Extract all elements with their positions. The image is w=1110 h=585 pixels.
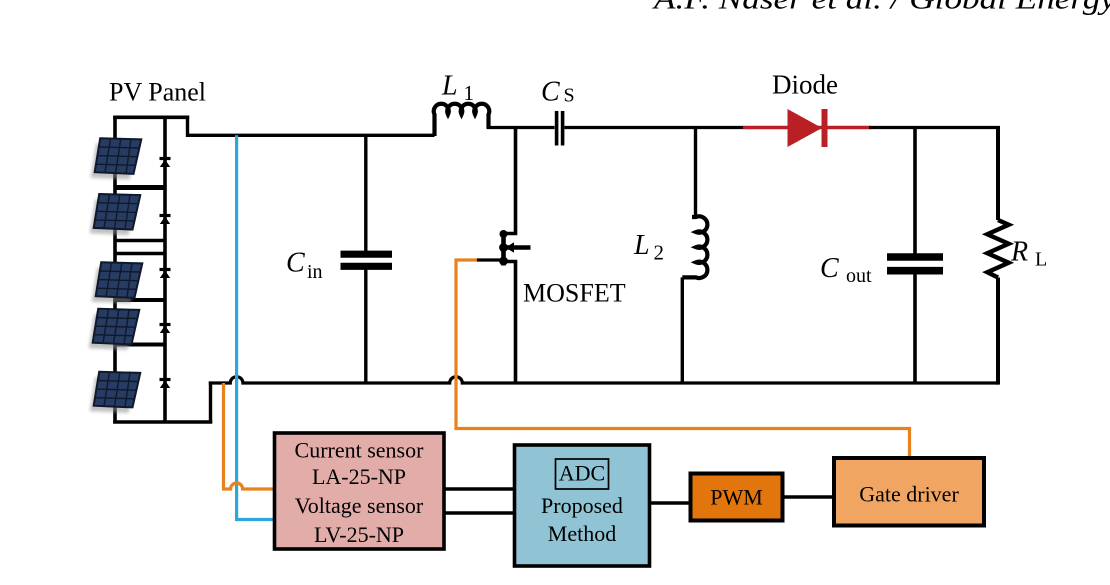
bypass diode D3 bbox=[160, 270, 171, 279]
svg-text:LA-25-NP: LA-25-NP bbox=[312, 464, 406, 489]
capacitor Cout top lead bbox=[913, 126, 917, 255]
resistor RL zigzag bbox=[987, 220, 1008, 278]
svg-text:Current sensor: Current sensor bbox=[295, 438, 425, 463]
svg-text:Voltage sensor: Voltage sensor bbox=[295, 493, 424, 518]
resistor RL bottom lead bbox=[996, 278, 1000, 385]
svg-text:C: C bbox=[286, 248, 305, 279]
PV module 4 bbox=[89, 309, 140, 350]
MOSFET Q gate lead with arrow bbox=[506, 245, 531, 249]
svg-text:Proposed: Proposed bbox=[541, 493, 623, 518]
svg-text:Method: Method bbox=[548, 521, 616, 546]
bypass diode D4 bbox=[160, 325, 171, 334]
svg-text:PV Panel: PV Panel bbox=[109, 78, 206, 107]
diode D (red) wire bbox=[743, 126, 871, 129]
capacitor Cin top lead bbox=[364, 135, 367, 251]
wire top rail left of Cs bbox=[487, 126, 555, 129]
inductor L2 top lead bbox=[694, 128, 697, 218]
PV string interconnect bar 5 bbox=[115, 343, 165, 347]
MOSFET Q channel bar bbox=[501, 231, 506, 266]
PV string interconnect bar 2 bbox=[115, 239, 165, 242]
wire bottom rail with hops bbox=[209, 377, 998, 383]
inductor L2 bottom lead bbox=[681, 277, 684, 383]
svg-text:PWM: PWM bbox=[710, 485, 763, 510]
wire top rail right of diode bbox=[869, 126, 1000, 129]
block ADC / proposed method bbox=[515, 445, 650, 566]
wire ADC to PWM bbox=[650, 501, 692, 504]
svg-text:in: in bbox=[307, 261, 323, 283]
svg-text:L: L bbox=[1035, 249, 1047, 271]
bypass diode D2 bbox=[160, 216, 171, 225]
PV string interconnect bar 3 bbox=[115, 252, 165, 255]
block PWM bbox=[691, 474, 783, 521]
wire orange current sense bbox=[224, 383, 277, 489]
PV module 3 bbox=[92, 262, 143, 303]
PV module 2 bbox=[90, 194, 141, 235]
MOSFET Q contact dots bbox=[500, 230, 508, 238]
svg-text:2: 2 bbox=[654, 241, 665, 265]
block gate driver bbox=[834, 458, 984, 526]
capacitor Cin plates bbox=[341, 251, 393, 258]
wire step from PV to main rail bbox=[188, 116, 435, 136]
capacitor Cout bottom lead bbox=[913, 274, 917, 384]
capacitor Cin bottom lead bbox=[364, 270, 367, 384]
svg-text:Diode: Diode bbox=[772, 70, 838, 100]
wire sensor to ADC (upper) bbox=[444, 487, 515, 490]
svg-text:1: 1 bbox=[464, 81, 475, 105]
svg-text:L: L bbox=[441, 71, 458, 102]
wire PV bypass rail bbox=[163, 116, 167, 424]
svg-text:A.F. Naser et al. / Global Ene: A.F. Naser et al. / Global Energy bbox=[652, 0, 1110, 16]
resistor RL top lead bbox=[996, 126, 1000, 220]
diode D triangle bbox=[788, 109, 823, 147]
capacitor CS bbox=[555, 111, 559, 146]
wire top rail Cs to L2 node bbox=[565, 126, 745, 129]
wire PV bottom bar bbox=[113, 420, 212, 423]
MOSFET Q source lead bbox=[504, 262, 516, 384]
svg-text:C: C bbox=[541, 77, 560, 108]
MOSFET Q drain lead bbox=[504, 128, 516, 234]
svg-text:C: C bbox=[820, 253, 839, 284]
wire blue voltage sense bbox=[237, 135, 276, 519]
wire black gate stub bbox=[476, 258, 504, 261]
inductor L1 bbox=[434, 104, 490, 136]
svg-text:ADC: ADC bbox=[559, 461, 605, 486]
wire PWM to gate driver bbox=[783, 495, 835, 498]
capacitor Cout plates bbox=[887, 253, 943, 261]
wire PV left rail bbox=[113, 116, 117, 424]
svg-text:LV-25-NP: LV-25-NP bbox=[314, 522, 404, 547]
diode D cathode bar bbox=[822, 109, 828, 147]
wire PV top bar bbox=[113, 116, 189, 120]
PV module 1 bbox=[91, 138, 142, 179]
bypass diode D5 bbox=[160, 380, 171, 389]
svg-text:MOSFET: MOSFET bbox=[523, 279, 626, 308]
inductor L2 bbox=[682, 216, 707, 278]
svg-text:Gate driver: Gate driver bbox=[859, 482, 959, 507]
wire sensor to ADC (lower) bbox=[444, 511, 515, 514]
PV string interconnect bar 4 bbox=[115, 298, 165, 302]
svg-text:R: R bbox=[1010, 237, 1028, 268]
PV string interconnect bar 1 bbox=[115, 185, 165, 190]
wire riser to bottom rail bbox=[209, 382, 212, 424]
bypass diode D1 bbox=[160, 159, 171, 168]
svg-text:out: out bbox=[846, 265, 872, 287]
svg-text:S: S bbox=[564, 85, 575, 107]
PV module 5 bbox=[90, 372, 141, 413]
svg-text:L: L bbox=[633, 230, 650, 261]
block current/voltage sensor bbox=[275, 433, 445, 549]
wire orange gate drive bbox=[456, 260, 910, 459]
